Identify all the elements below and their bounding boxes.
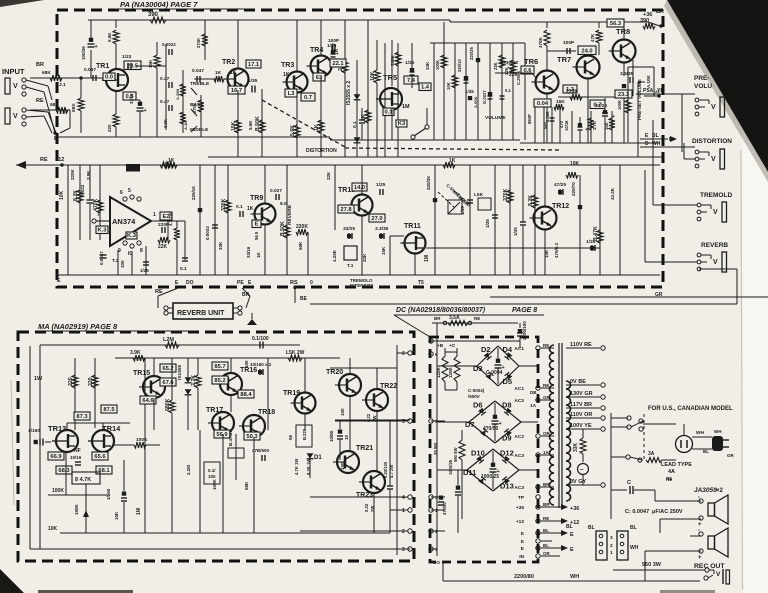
svg-text:AC3: AC3 [514, 485, 524, 491]
svg-text:RE: RE [543, 343, 549, 348]
svg-text:D6: D6 [473, 401, 483, 410]
svg-text:B.47K: B.47K [593, 226, 599, 241]
svg-text:D2: D2 [481, 345, 491, 354]
svg-text:68K: 68K [244, 481, 249, 490]
svg-text:2.7K: 2.7K [592, 121, 597, 130]
svg-text:5.6K: 5.6K [290, 125, 296, 136]
svg-text:PAGE 8: PAGE 8 [512, 307, 537, 314]
svg-text:MA (NA02919) PAGE 8: MA (NA02919) PAGE 8 [38, 322, 118, 331]
svg-text:0.7: 0.7 [304, 95, 312, 101]
svg-text:10K: 10K [446, 82, 451, 90]
svg-text:88.4: 88.4 [240, 392, 252, 398]
svg-text:BL: BL [566, 524, 573, 530]
svg-text:85.2: 85.2 [214, 378, 225, 384]
svg-text:1K: 1K [230, 70, 237, 76]
svg-text:TR21: TR21 [356, 445, 373, 452]
svg-text:1/25: 1/25 [327, 43, 337, 49]
svg-text:D11: D11 [463, 468, 476, 477]
svg-text:4.7K 1W: 4.7K 1W [294, 459, 299, 475]
svg-text:BL: BL [588, 525, 595, 531]
svg-text:AC1: AC1 [514, 386, 524, 392]
svg-text:4.25K: 4.25K [332, 249, 337, 262]
svg-text:63: 63 [316, 75, 323, 81]
svg-text:BL: BL [543, 543, 549, 548]
svg-text:42.2K: 42.2K [610, 187, 615, 200]
svg-text:1K: 1K [256, 251, 261, 258]
svg-text:+36: +36 [516, 505, 524, 511]
svg-text:1A: 1A [530, 403, 537, 409]
svg-text:REVERB: REVERB [701, 242, 728, 249]
svg-text:27.8: 27.8 [340, 207, 352, 213]
svg-text:2.7K: 2.7K [191, 375, 197, 386]
svg-text:V: V [711, 104, 716, 111]
svg-text:8.2K: 8.2K [528, 195, 534, 206]
svg-text:2W: 2W [370, 506, 375, 512]
svg-text:22K: 22K [362, 253, 367, 262]
svg-text:TR13: TR13 [48, 424, 66, 433]
svg-text:REC OUT: REC OUT [694, 563, 725, 570]
svg-text:220K: 220K [566, 89, 578, 95]
svg-text:220/35: 220/35 [469, 47, 474, 60]
svg-text:68.3: 68.3 [58, 468, 70, 474]
svg-text:RE: RE [36, 98, 44, 104]
svg-text:+B: +B [437, 343, 444, 349]
svg-text:C-0004: C-0004 [486, 370, 503, 376]
svg-text:D12: D12 [500, 449, 514, 458]
svg-text:K3: K3 [398, 121, 406, 127]
svg-text:PSA: PSA [643, 88, 654, 94]
svg-text:1/35: 1/35 [465, 89, 474, 94]
svg-text:×2: ×2 [716, 488, 724, 494]
svg-text:470K: 470K [93, 198, 99, 211]
svg-text:A.1K: A.1K [183, 121, 188, 130]
svg-text:100K: 100K [617, 100, 622, 110]
svg-text:8: 8 [140, 248, 143, 254]
svg-text:AC3: AC3 [514, 453, 524, 459]
svg-text:V: V [13, 113, 18, 120]
svg-text:1/160: 1/160 [106, 488, 111, 500]
svg-text:IS1555 x 2: IS1555 x 2 [346, 81, 352, 105]
svg-text:47/25: 47/25 [554, 182, 566, 188]
svg-text:TR2: TR2 [222, 59, 235, 66]
svg-text:220K: 220K [296, 224, 308, 230]
svg-text:1000/25: 1000/25 [448, 459, 453, 475]
svg-text:TR20: TR20 [326, 369, 343, 376]
svg-text:0.1: 0.1 [352, 121, 358, 128]
svg-text:TR14: TR14 [102, 424, 121, 433]
svg-text:BRIGHT: BRIGHT [500, 60, 518, 66]
svg-text:D5: D5 [503, 377, 513, 386]
svg-text:150: 150 [340, 408, 345, 416]
svg-text:BL: BL [543, 528, 549, 533]
svg-text:1/25: 1/25 [376, 182, 386, 188]
svg-text:220: 220 [107, 124, 112, 132]
svg-text:AC2: AC2 [514, 398, 524, 404]
svg-text:V: V [711, 156, 716, 163]
svg-text:+: + [499, 421, 502, 427]
svg-text:0.068: 0.068 [545, 111, 550, 122]
svg-text:4.8: 4.8 [130, 166, 137, 172]
svg-text:10K: 10K [48, 526, 58, 532]
svg-text:100/36: 100/36 [81, 46, 86, 60]
svg-text:130V GR: 130V GR [570, 391, 593, 397]
svg-text:15K: 15K [381, 246, 386, 255]
svg-text:220/70: 220/70 [571, 182, 576, 196]
svg-text:TR5: TR5 [383, 73, 397, 82]
svg-text:860P: 860P [527, 114, 532, 124]
svg-text:0.0022: 0.0022 [162, 42, 176, 47]
svg-text:33K: 33K [425, 61, 430, 70]
svg-text:1K: 1K [247, 206, 254, 212]
svg-text:220K: 220K [70, 168, 75, 180]
svg-text:8 4.7K: 8 4.7K [75, 477, 91, 483]
svg-text:REVERB: REVERB [287, 204, 293, 225]
svg-text:10K: 10K [114, 511, 119, 520]
svg-text:3.3/35: 3.3/35 [375, 226, 389, 232]
svg-text:TREMOLD: TREMOLD [700, 192, 732, 199]
svg-text:V: V [13, 83, 18, 90]
svg-text:TR6: TR6 [524, 57, 538, 66]
svg-text:WH: WH [696, 430, 705, 436]
svg-text:AC1: AC1 [514, 346, 524, 352]
svg-text:TP: TP [518, 495, 525, 501]
svg-text:56.9: 56.9 [216, 432, 228, 438]
svg-text:TR1: TR1 [96, 63, 109, 70]
svg-text:1K: 1K [314, 124, 320, 131]
svg-text:33/16: 33/16 [246, 246, 251, 258]
svg-text:1M: 1M [402, 104, 410, 110]
svg-text:0.1: 0.1 [505, 88, 511, 93]
svg-text:680K: 680K [165, 398, 171, 411]
svg-text:1: 1 [402, 508, 405, 514]
svg-text:3.9K: 3.9K [130, 350, 141, 356]
svg-text:L5K: L5K [474, 192, 484, 198]
svg-text:NF: NF [74, 448, 81, 454]
svg-text:50.3: 50.3 [246, 434, 258, 440]
svg-text:DC (NA02918/80036/80037): DC (NA02918/80036/80037) [396, 307, 486, 314]
svg-text:T.2: T.2 [112, 258, 119, 264]
svg-text:A.25K: A.25K [175, 89, 180, 100]
svg-text:+C: +C [449, 343, 456, 349]
svg-text:120K: 120K [436, 366, 441, 378]
svg-text:0V BE: 0V BE [570, 379, 586, 385]
svg-text:110V RE: 110V RE [570, 342, 592, 348]
svg-text:PA (NA30004) PAGE 7: PA (NA30004) PAGE 7 [120, 0, 198, 9]
svg-text:D8: D8 [502, 401, 512, 410]
svg-text:OR: OR [543, 551, 551, 556]
svg-text:1/35: 1/35 [460, 206, 465, 215]
svg-text:D1: D1 [314, 455, 322, 461]
svg-text:0.022: 0.022 [80, 184, 85, 196]
svg-text:270K: 270K [503, 188, 509, 201]
svg-text:100V YE: 100V YE [570, 423, 592, 429]
svg-text:D4: D4 [503, 345, 513, 354]
svg-text:4.7.2W: 4.7.2W [168, 213, 173, 226]
svg-text:V: V [716, 571, 721, 578]
svg-text:1: 1 [153, 212, 156, 218]
svg-text:+: + [144, 108, 147, 114]
svg-text:16.7: 16.7 [231, 88, 242, 94]
svg-text:PRE-SET VOLUME: PRE-SET VOLUME [637, 79, 642, 120]
svg-text:5.6K: 5.6K [248, 120, 253, 130]
svg-text:3.5A: 3.5A [449, 315, 460, 321]
svg-text:-: - [698, 528, 700, 534]
svg-text:0.027: 0.027 [270, 188, 282, 194]
svg-text:DO: DO [186, 280, 194, 286]
svg-text:0: 0 [310, 280, 313, 286]
svg-text:TR9: TR9 [250, 195, 263, 202]
svg-text:8.2K 1W: 8.2K 1W [306, 459, 311, 475]
svg-text:15K: 15K [231, 121, 237, 131]
svg-text:270K: 270K [192, 103, 197, 113]
svg-text:G.0027: G.0027 [482, 90, 487, 104]
svg-text:0.47: 0.47 [160, 99, 170, 105]
svg-text:33/160 x 2: 33/160 x 2 [250, 362, 272, 367]
svg-text:330K: 330K [221, 198, 227, 211]
svg-text:390: 390 [640, 18, 649, 24]
svg-text:0.1: 0.1 [236, 204, 243, 210]
svg-text:0.047: 0.047 [192, 68, 204, 74]
svg-text:6: 6 [402, 351, 405, 357]
svg-text:3.9K: 3.9K [86, 170, 91, 180]
svg-text:66.9: 66.9 [50, 454, 62, 460]
svg-text:J.1: J.1 [59, 82, 66, 88]
svg-text:87.5: 87.5 [103, 407, 115, 413]
svg-text:BR: BR [434, 316, 441, 321]
svg-text:470/50: 470/50 [483, 426, 499, 432]
svg-text:5: 5 [402, 419, 405, 425]
svg-text:10/80: 10/80 [329, 430, 334, 442]
svg-text:TR3: TR3 [281, 62, 294, 69]
svg-text:RE: RE [543, 516, 549, 521]
svg-text:1/35: 1/35 [485, 219, 490, 228]
svg-text:4: 4 [402, 495, 405, 501]
svg-text:117V BR: 117V BR [570, 402, 592, 408]
svg-text:VOLU: VOLU [694, 83, 712, 90]
svg-text:1M: 1M [424, 255, 430, 262]
svg-text:22K: 22K [493, 62, 498, 70]
svg-text:WH: WH [630, 545, 639, 551]
svg-text:K.3: K.3 [127, 233, 137, 239]
svg-text:IN: IN [519, 554, 524, 560]
svg-text:1K: 1K [283, 72, 290, 78]
svg-text:5.6K: 5.6K [107, 32, 112, 42]
svg-text:B.470K: B.470K [228, 430, 233, 446]
svg-text:J.2: J.2 [59, 110, 66, 116]
svg-text:C-0004): C-0004) [468, 388, 485, 393]
svg-text:INPUT: INPUT [2, 67, 25, 76]
svg-text:+: + [585, 127, 588, 132]
svg-text:+: + [698, 555, 702, 561]
svg-text:T.1: T.1 [347, 263, 354, 269]
svg-text:390: 390 [148, 12, 159, 18]
svg-text:DB: DB [530, 390, 537, 395]
svg-text:100P: 100P [563, 40, 575, 46]
svg-text:IS1555: IS1555 [177, 364, 183, 380]
svg-text:WH: WH [570, 574, 579, 580]
svg-text:0.0033: 0.0033 [205, 226, 210, 240]
svg-text:8.2K: 8.2K [73, 190, 79, 201]
svg-text:10K: 10K [370, 71, 376, 81]
svg-text:0.047: 0.047 [84, 67, 96, 73]
svg-text:3: 3 [610, 535, 613, 541]
svg-text:33K: 33K [218, 241, 223, 250]
svg-text:39 5W: 39 5W [433, 443, 438, 455]
svg-text:~: ~ [580, 468, 584, 474]
svg-text:JA3059: JA3059 [694, 487, 717, 494]
svg-text:B.50K: B.50K [280, 221, 286, 236]
svg-text:1/25: 1/25 [140, 268, 149, 273]
svg-text:4A: 4A [668, 469, 675, 475]
svg-text:BL: BL [703, 449, 709, 454]
svg-text:2: 2 [402, 529, 405, 535]
svg-text:1.4: 1.4 [421, 85, 430, 91]
svg-text:TR23: TR23 [356, 492, 373, 499]
svg-text:PE: PE [237, 280, 244, 286]
svg-text:TR18: TR18 [258, 409, 275, 416]
svg-text:33/16: 33/16 [129, 93, 134, 104]
svg-text:65.6: 65.6 [94, 454, 106, 460]
svg-text:3.3/35: 3.3/35 [620, 71, 634, 77]
svg-text:1A: 1A [543, 450, 550, 455]
svg-text:7: 7 [97, 212, 100, 218]
svg-text:0V GY: 0V GY [570, 479, 587, 485]
svg-text:100: 100 [208, 474, 216, 479]
svg-text:110V OR: 110V OR [570, 412, 592, 418]
svg-text:8.0: 8.0 [280, 201, 287, 207]
svg-text:68K: 68K [298, 241, 303, 250]
svg-text:TR15: TR15 [133, 370, 150, 377]
svg-text:BR: BR [656, 9, 664, 15]
svg-text:5: 5 [128, 188, 131, 194]
svg-text:PRE-: PRE- [694, 75, 710, 82]
svg-text:AN374: AN374 [112, 217, 136, 226]
svg-text:INTENSITY: INTENSITY [350, 283, 374, 288]
svg-text:1K: 1K [215, 70, 222, 76]
svg-text:10K: 10K [570, 161, 580, 167]
svg-text:1W: 1W [34, 376, 43, 382]
svg-text:V: V [713, 209, 718, 216]
svg-text:0.1: 0.1 [180, 266, 187, 272]
svg-text:10K: 10K [148, 59, 153, 68]
svg-text:470/6.3: 470/6.3 [554, 242, 559, 258]
svg-text:WH: WH [714, 429, 722, 434]
svg-text:LEAD TYPE: LEAD TYPE [661, 462, 692, 468]
svg-text:D13: D13 [500, 482, 514, 491]
svg-text:+12: +12 [516, 519, 524, 525]
svg-text:+CO: +CO [430, 560, 440, 566]
svg-text:+12: +12 [55, 157, 64, 163]
svg-text:150: 150 [340, 462, 345, 470]
svg-text:3.9K: 3.9K [163, 119, 168, 128]
svg-text:470K: 470K [538, 36, 543, 48]
svg-text:DISTORTION: DISTORTION [692, 138, 732, 145]
svg-text:YE: YE [657, 88, 664, 94]
svg-text:K.3: K.3 [97, 228, 107, 234]
svg-text:10: 10 [344, 434, 349, 440]
svg-text:E: E [570, 532, 574, 538]
svg-text:56.3: 56.3 [610, 21, 622, 27]
svg-text:0.22/100: 0.22/100 [383, 461, 388, 478]
svg-text:V: V [713, 259, 718, 266]
svg-text:56: 56 [288, 434, 293, 440]
svg-text:TR22: TR22 [380, 383, 397, 390]
svg-text:87.3: 87.3 [76, 414, 88, 420]
svg-text:1/35: 1/35 [513, 227, 518, 236]
svg-text:47B/500: 47B/500 [252, 448, 270, 453]
svg-text:L5K 2W: L5K 2W [286, 350, 305, 356]
svg-text:AC2: AC2 [514, 434, 524, 440]
svg-text:0.22: 0.22 [364, 503, 369, 512]
svg-text:2: 2 [610, 543, 613, 549]
svg-text:RE: RE [40, 157, 48, 163]
svg-text:3: 3 [402, 547, 405, 553]
svg-text:22K: 22K [158, 244, 168, 250]
svg-text:100K: 100K [52, 488, 64, 494]
svg-text:D9: D9 [502, 434, 512, 443]
svg-text:0.1/: 0.1/ [208, 468, 216, 473]
svg-text:24.0: 24.0 [581, 49, 592, 55]
svg-text:220/16: 220/16 [191, 186, 196, 200]
svg-text:GR: GR [727, 453, 735, 458]
svg-text:68K: 68K [71, 103, 77, 112]
svg-text:1: 1 [610, 550, 613, 556]
svg-text:RE: RE [666, 476, 672, 481]
svg-text:T5: T5 [418, 280, 424, 286]
svg-text:D: D [645, 141, 649, 147]
svg-text:10/16: 10/16 [564, 120, 569, 131]
svg-text:L2M: L2M [163, 337, 174, 343]
svg-text:B.220: B.220 [302, 428, 307, 440]
svg-text:47K: 47K [590, 33, 595, 42]
svg-text:85.7: 85.7 [214, 364, 225, 370]
svg-text:2200/80: 2200/80 [514, 574, 534, 580]
svg-text:56.9: 56.9 [254, 231, 259, 240]
svg-text:TR7: TR7 [557, 55, 571, 64]
svg-text:22K: 22K [326, 171, 331, 180]
svg-text:7.4: 7.4 [407, 78, 416, 84]
svg-text:10/16: 10/16 [70, 455, 82, 460]
svg-text:68K: 68K [50, 102, 59, 108]
svg-text:470/50: 470/50 [442, 502, 447, 515]
svg-text:2.2M: 2.2M [186, 465, 191, 475]
svg-text:270K: 270K [196, 38, 201, 48]
svg-text:150K: 150K [74, 503, 79, 515]
svg-text:E: E [570, 547, 574, 553]
svg-text:22.1: 22.1 [332, 61, 344, 67]
svg-text:1/23: 1/23 [122, 54, 132, 60]
svg-text:+36: +36 [570, 506, 579, 512]
svg-text:15K: 15K [544, 249, 549, 258]
svg-text:1/25: 1/25 [405, 60, 415, 66]
svg-text:68K: 68K [42, 70, 51, 76]
svg-text:1000/25: 1000/25 [481, 474, 499, 480]
svg-text:TR12: TR12 [552, 203, 569, 210]
svg-text:67.6: 67.6 [162, 380, 174, 386]
svg-text:220/35: 220/35 [426, 176, 431, 190]
svg-text:C: 0.0047: C: 0.0047 [625, 509, 649, 515]
svg-text:TR19: TR19 [283, 390, 300, 397]
svg-text:560 5W: 560 5W [453, 448, 458, 462]
svg-text:REVERB UNIT: REVERB UNIT [177, 310, 225, 317]
svg-text:TR8: TR8 [616, 27, 630, 36]
svg-text:15K: 15K [556, 99, 565, 105]
svg-text:100K: 100K [136, 437, 148, 443]
svg-text:100K: 100K [435, 60, 440, 70]
svg-text:C: C [627, 480, 631, 486]
svg-text:0.47: 0.47 [160, 76, 170, 82]
svg-text:D3: D3 [473, 364, 483, 373]
